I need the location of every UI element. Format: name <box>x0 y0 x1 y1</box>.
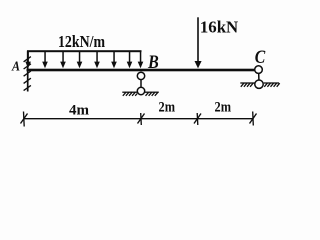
point load 16kN arrow <box>195 17 202 68</box>
beam AC <box>27 69 256 72</box>
ground hatching at B <box>122 92 159 96</box>
ground hatching at C <box>240 83 279 87</box>
dimension tick at load point <box>194 113 201 125</box>
wall support at A <box>24 51 31 92</box>
svg-text:2m: 2m <box>159 100 176 116</box>
dimension tick at B <box>138 113 145 125</box>
dimension tick at C end <box>250 112 257 126</box>
svg-text:16kN: 16kN <box>200 17 239 36</box>
distributed load 12kN/m on AB <box>25 50 143 68</box>
link support at B (hinge circles) <box>137 72 144 95</box>
svg-text:4m: 4m <box>69 103 90 119</box>
svg-text:2m: 2m <box>215 100 232 116</box>
dimension tick at A end <box>21 112 28 127</box>
svg-text:12kN/m: 12kN/m <box>58 32 105 51</box>
svg-text:A: A <box>11 59 20 74</box>
link support at C (hinge circles) <box>255 66 264 89</box>
svg-text:C: C <box>255 47 266 68</box>
dimension line A to C <box>24 118 253 120</box>
svg-text:B: B <box>147 52 159 73</box>
